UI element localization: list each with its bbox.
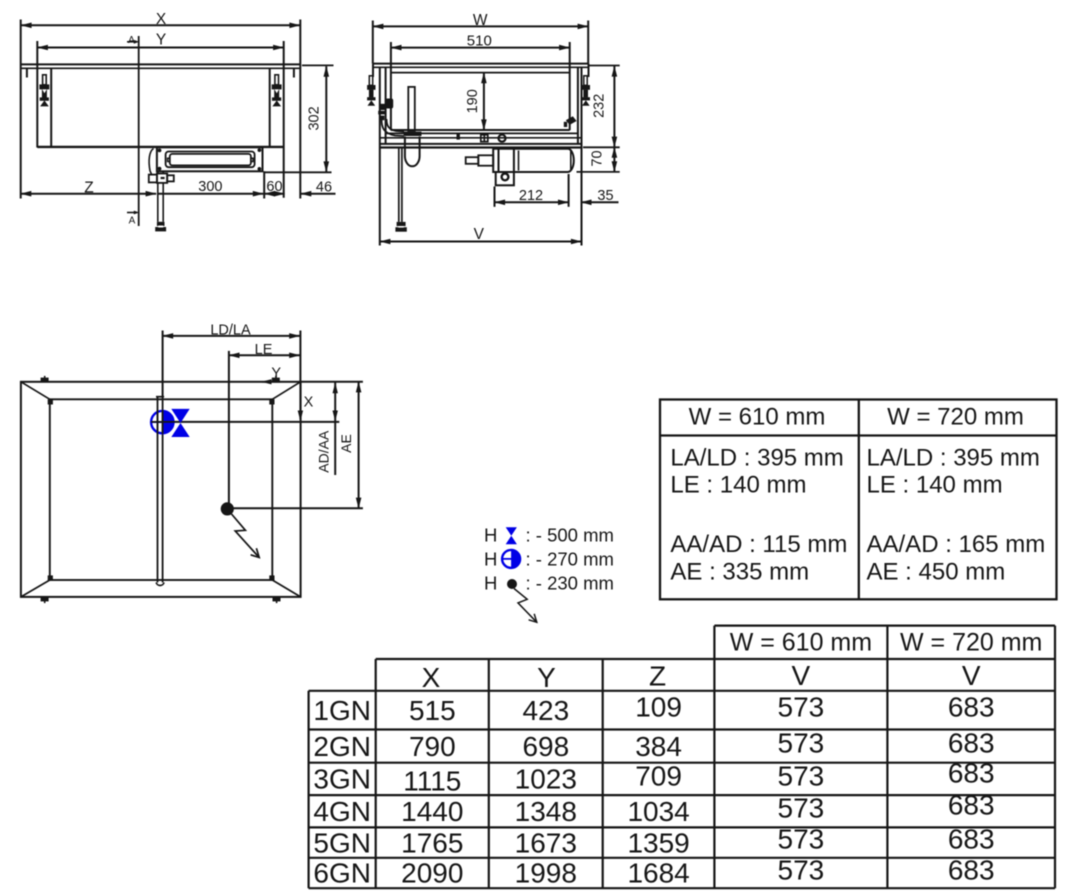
svg-text:683: 683 [948, 824, 995, 855]
countertop slab [21, 63, 301, 65]
svg-text:2GN: 2GN [313, 731, 371, 762]
extension 302 top [302, 64, 334, 66]
svg-text:510: 510 [467, 33, 492, 50]
AD/AA arrowheads [333, 382, 338, 393]
cable curve at control box left [149, 149, 153, 176]
divider bar [157, 397, 159, 583]
countertop slab [373, 63, 589, 65]
basin floor [391, 129, 570, 131]
svg-text:LE : 140 mm: LE : 140 mm [670, 471, 806, 498]
corner diagonal TR [272, 382, 300, 400]
svg-text:573: 573 [778, 728, 825, 759]
drain valve assembly [149, 171, 174, 222]
extension line left outer [20, 20, 22, 199]
svg-text:V: V [474, 226, 485, 243]
svg-text:70: 70 [590, 150, 606, 166]
svg-text:60: 60 [266, 179, 282, 195]
svg-text:Z: Z [84, 179, 93, 196]
svg-text:1034: 1034 [627, 796, 689, 827]
control slot inner [170, 154, 251, 166]
blue bowtie symbol [171, 409, 189, 437]
svg-text:W = 610 mm: W = 610 mm [689, 404, 826, 431]
svg-text:AD/AA: AD/AA [315, 430, 331, 473]
svg-text:A: A [128, 35, 135, 46]
svg-text:W = 720 mm: W = 720 mm [887, 404, 1024, 431]
drain pipe bottom fitting [157, 222, 165, 226]
svg-text:232: 232 [592, 94, 608, 118]
body wall right [581, 67, 583, 245]
dimension LE [229, 354, 300, 356]
corner diagonal BL [21, 580, 50, 597]
extension 302 bottom [265, 171, 332, 173]
svg-text:190: 190 [465, 89, 481, 113]
clamp left (front view) [39, 75, 49, 107]
solenoid indicator circle [502, 174, 509, 181]
dimension LD/LA [163, 335, 300, 337]
body wall left [379, 67, 381, 245]
svg-text:1115: 1115 [403, 766, 461, 797]
W extension left [372, 21, 374, 64]
H fitting under basin [481, 135, 488, 142]
basin wall left [390, 42, 392, 130]
heater motor assembly [493, 149, 574, 186]
drain lever right [566, 116, 577, 125]
svg-text:790: 790 [409, 731, 456, 762]
overflow circle [499, 135, 506, 142]
right edge extension (X/LD/LE) [299, 331, 301, 382]
AE dimension line [358, 382, 360, 508]
dimension 212 [495, 174, 569, 207]
inner rectangle [50, 399, 272, 580]
section marker A top [127, 35, 139, 46]
dimension 510 line [391, 47, 570, 49]
svg-text:2090: 2090 [401, 858, 463, 889]
dimension 302 line [325, 66, 327, 172]
svg-text:AE : 450 mm: AE : 450 mm [867, 558, 1006, 585]
svg-text:W = 610 mm: W = 610 mm [730, 629, 872, 657]
right table column divider [858, 400, 860, 600]
svg-text:709: 709 [635, 761, 682, 792]
body bottom [37, 146, 283, 148]
extension line right outer [299, 20, 301, 199]
tick below countertop left [26, 68, 28, 77]
dimension V [380, 241, 582, 243]
svg-text:423: 423 [522, 695, 569, 726]
corner diagonal TL [21, 382, 50, 400]
valve handle dash [161, 177, 165, 179]
Y arrow on top edge [262, 381, 280, 383]
dimension Z line [21, 193, 157, 195]
svg-text:1765: 1765 [401, 827, 463, 858]
dimension 300 line [158, 193, 263, 195]
svg-text:A: A [129, 216, 136, 227]
dimension 70 [577, 147, 620, 172]
svg-text:46: 46 [316, 179, 332, 195]
faucet valve on left wall [378, 99, 393, 121]
svg-text:1023: 1023 [515, 764, 577, 795]
svg-text:573: 573 [778, 761, 825, 792]
X down arrowhead [298, 411, 303, 422]
svg-text:384: 384 [635, 731, 682, 762]
svg-text:W = 720 mm: W = 720 mm [900, 629, 1042, 657]
svg-text:683: 683 [948, 692, 995, 723]
legend dot [507, 579, 517, 589]
zigzag leader arrow from dot [232, 514, 260, 558]
svg-text:573: 573 [778, 692, 825, 723]
svg-text:LA/LD : 395 mm: LA/LD : 395 mm [867, 445, 1040, 472]
svg-text:4GN: 4GN [313, 796, 371, 827]
svg-text:1673: 1673 [515, 827, 577, 858]
svg-text:1684: 1684 [627, 858, 689, 889]
basin inner wall right [269, 68, 271, 147]
bottom table horizontal lines [714, 624, 1055, 626]
svg-text:V: V [962, 660, 981, 691]
svg-text:683: 683 [948, 728, 995, 759]
inner corner clamp squares [48, 399, 275, 580]
line through symbols [162, 421, 339, 423]
right body wall [283, 41, 285, 198]
svg-text:109: 109 [635, 692, 682, 723]
svg-text:683: 683 [948, 855, 995, 886]
svg-text:1348: 1348 [515, 796, 577, 827]
legend zigzag arrow [514, 589, 537, 623]
control slot outer [166, 152, 255, 168]
svg-text:LD/LA: LD/LA [210, 322, 251, 338]
outer rectangle [21, 382, 301, 597]
dimension W line [373, 25, 588, 27]
svg-text:: - 230 mm: : - 230 mm [526, 573, 614, 594]
edge clamp glyph top-left [41, 376, 49, 382]
svg-text:300: 300 [198, 179, 222, 195]
dimension 35 [581, 201, 619, 203]
left clamp (side view) [367, 76, 375, 106]
svg-text:515: 515 [409, 695, 456, 726]
svg-text:Y: Y [271, 365, 281, 381]
svg-text:1998: 1998 [515, 858, 577, 889]
svg-text:573: 573 [778, 793, 825, 824]
slot end notches [168, 158, 170, 161]
tick below countertop right [293, 68, 295, 77]
legend bowtie [506, 527, 517, 544]
svg-text:3GN: 3GN [313, 764, 371, 795]
svg-text:X: X [156, 11, 167, 28]
section marker A bottom [127, 211, 139, 227]
black leader dot [221, 502, 234, 515]
drop pipe fitting [397, 222, 406, 226]
svg-text:Y: Y [537, 662, 556, 693]
svg-text:683: 683 [948, 790, 995, 821]
svg-text:6GN: 6GN [313, 858, 371, 889]
svg-text:Y: Y [156, 31, 166, 48]
right clamp (side view) [582, 76, 590, 106]
svg-text:35: 35 [597, 188, 613, 204]
svg-text:H: H [484, 525, 497, 546]
standpipe base flange [404, 132, 422, 136]
svg-text:302: 302 [307, 106, 323, 130]
svg-text:683: 683 [948, 758, 995, 789]
legend circle symbol [502, 550, 520, 568]
S-curve supply pipe [382, 119, 405, 136]
standpipe in basin [408, 87, 415, 131]
edge clamp glyph top-right [272, 376, 280, 382]
svg-text:212: 212 [519, 188, 543, 204]
svg-text:LE : 140 mm: LE : 140 mm [867, 471, 1003, 498]
bottom flange [380, 143, 582, 145]
svg-text:1359: 1359 [627, 827, 689, 858]
dimension Y line [37, 47, 283, 49]
dot horizontal line [227, 507, 363, 509]
svg-text:698: 698 [522, 731, 569, 762]
svg-text:W: W [473, 12, 488, 29]
AD/AA dimension line with label leader [334, 382, 336, 475]
dimension 46 line [301, 193, 336, 195]
extension line 60 left [263, 171, 265, 198]
dimension 190 [483, 73, 485, 130]
svg-text:AE: AE [338, 434, 354, 453]
dimension X line [21, 24, 300, 26]
svg-text:V: V [792, 660, 811, 691]
svg-text:AE : 335 mm: AE : 335 mm [670, 558, 809, 585]
edge clamp glyph bottom-left [41, 597, 49, 603]
black lines over circle (divider) [157, 410, 159, 434]
blue valve circle symbol [151, 411, 173, 433]
svg-text:LA/LD : 395 mm: LA/LD : 395 mm [670, 445, 843, 472]
svg-text:AA/AD : 115 mm: AA/AD : 115 mm [670, 531, 847, 558]
left body wall [36, 41, 38, 148]
W extension right [587, 21, 589, 64]
X arrow line [299, 382, 301, 419]
section line A-A [138, 36, 140, 226]
right table border [660, 400, 1057, 600]
svg-text:X: X [422, 662, 441, 693]
LE extension / dot riser [228, 351, 230, 509]
svg-text:5GN: 5GN [313, 827, 371, 858]
svg-text:: - 270 mm: : - 270 mm [526, 549, 614, 570]
svg-text:: - 500 mm: : - 500 mm [526, 525, 614, 546]
basin inner wall left [50, 68, 52, 147]
basin rim interior [391, 72, 570, 74]
drop pipe [399, 148, 402, 222]
rod left of motor [466, 155, 493, 165]
svg-text:1GN: 1GN [313, 695, 371, 726]
bottom table vertical lines [308, 691, 310, 888]
svg-text:LE: LE [255, 342, 273, 358]
basin wall right [569, 42, 571, 130]
svg-text:573: 573 [778, 855, 825, 886]
control box [157, 147, 263, 171]
svg-text:AA/AD : 165 mm: AA/AD : 165 mm [867, 531, 1046, 558]
svg-text:X: X [304, 395, 314, 411]
dimension 60 line [264, 193, 284, 195]
control box screw dots [158, 149, 162, 153]
top edge extension right [301, 381, 363, 383]
clamp right (front view) [272, 75, 282, 107]
svg-text:H: H [484, 549, 497, 570]
solenoid box [496, 172, 514, 185]
corner diagonal BR [272, 580, 300, 597]
right table header line [660, 434, 1057, 436]
svg-text:573: 573 [778, 824, 825, 855]
small tick under basin [457, 134, 460, 140]
svg-text:Z: Z [649, 661, 666, 692]
dimension 232 [583, 66, 620, 148]
edge clamp glyph bottom-right [273, 597, 281, 603]
svg-text:1440: 1440 [401, 796, 463, 827]
svg-text:H: H [484, 573, 497, 594]
P-trap [405, 137, 420, 167]
